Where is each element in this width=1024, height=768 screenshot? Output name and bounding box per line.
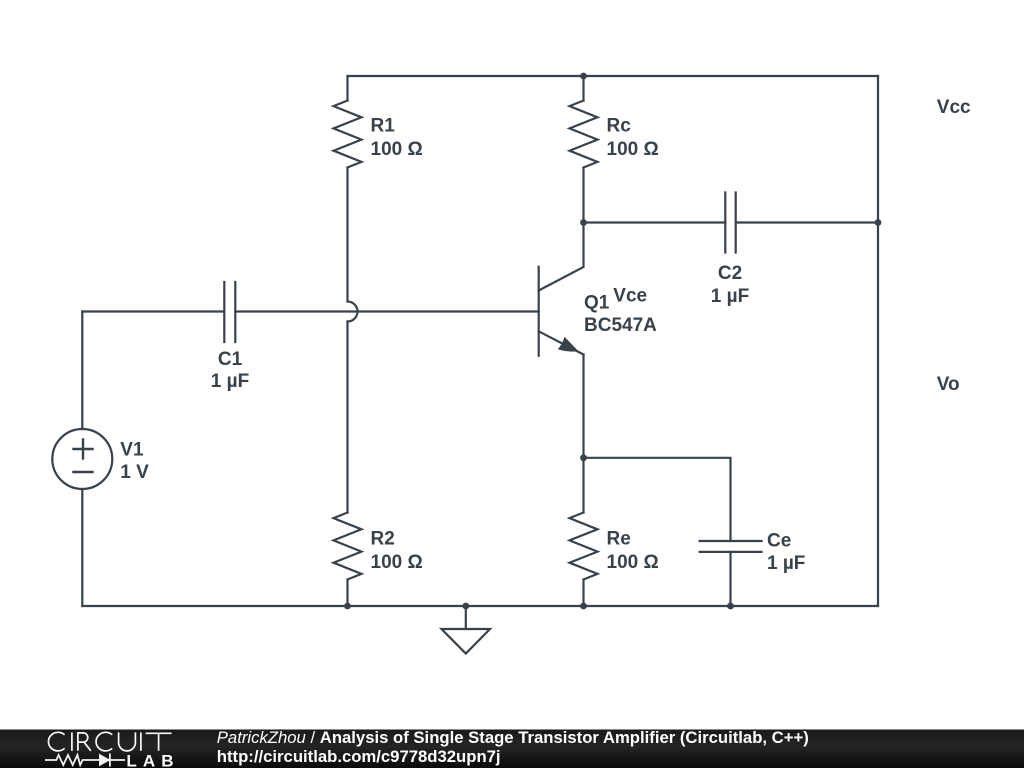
svg-text:Ce: Ce [767, 531, 791, 552]
svg-text:Vcc: Vcc [937, 97, 971, 118]
svg-text:100 Ω: 100 Ω [371, 139, 423, 160]
node dot Re bottom [580, 603, 587, 610]
svg-text:R2: R2 [371, 529, 395, 550]
wire bottom rail [82, 605, 878, 607]
wire R1 top lead [346, 76, 348, 101]
wire Re bottom lead [582, 580, 584, 607]
wire top rail Vcc [348, 75, 879, 77]
svg-text:C1: C1 [218, 349, 243, 370]
wire hop over base wire [348, 302, 358, 322]
node dot Rc top [580, 73, 587, 80]
resistor R1 [334, 101, 362, 168]
wire Rc top lead [582, 76, 584, 101]
wire emitter node to Ce [584, 458, 731, 541]
wire R2 bottom lead [346, 580, 348, 607]
node dot Ce bottom [727, 603, 734, 610]
svg-text:1 µF: 1 µF [767, 553, 805, 574]
wire right rail [877, 76, 879, 606]
wire collector node to C2 [584, 221, 726, 223]
wire emitter down [582, 355, 584, 513]
resistor Rc [570, 101, 598, 168]
wire V1 bottom lead [81, 489, 83, 606]
svg-text:BC547A: BC547A [584, 315, 657, 336]
svg-text:1 µF: 1 µF [711, 286, 749, 307]
wire C2 to right rail [736, 221, 878, 223]
svg-text:PatrickZhou / Analysis of Sing: PatrickZhou / Analysis of Single Stage T… [217, 728, 809, 747]
capacitor Ce [700, 541, 762, 552]
node dot emitter [580, 454, 587, 461]
logo CIRCUIT [48, 732, 171, 751]
voltage source V1 [52, 429, 112, 489]
svg-text:Rc: Rc [607, 116, 632, 137]
capacitor C1 [224, 282, 235, 342]
svg-text:R1: R1 [371, 116, 396, 137]
node dot R2 bottom [344, 603, 351, 610]
svg-text:Re: Re [607, 529, 631, 550]
resistor Re [570, 513, 598, 580]
svg-text:LAB: LAB [126, 751, 179, 768]
svg-text:Q1: Q1 [584, 293, 610, 314]
wire hop to R2 [346, 322, 348, 513]
wire Ce bottom lead [729, 552, 731, 606]
svg-text:V1: V1 [120, 440, 144, 461]
wire left input rail [81, 312, 83, 430]
resistor R2 [334, 513, 362, 580]
svg-text:100 Ω: 100 Ω [607, 552, 659, 573]
node dot collector [580, 219, 587, 226]
wire Rc to collector node [582, 168, 584, 223]
svg-text:1 µF: 1 µF [211, 371, 249, 392]
svg-text:C2: C2 [718, 263, 742, 284]
logo resistor-diode graphic [45, 754, 125, 767]
svg-text:1 V: 1 V [120, 462, 149, 483]
node dot C2 right [875, 219, 882, 226]
svg-text:http://circuitlab.com/c9778d32: http://circuitlab.com/c9778d32upn7j [217, 747, 501, 766]
transistor Q1 [539, 223, 584, 356]
svg-text:100 Ω: 100 Ω [371, 552, 423, 573]
svg-text:Vce: Vce [613, 286, 647, 307]
wire R1 to hop [346, 168, 348, 302]
ground [442, 606, 491, 654]
svg-text:Vo: Vo [937, 374, 960, 395]
capacitor C2 [725, 193, 735, 253]
node dot ground [462, 603, 469, 610]
wire base from C1 to Q1 base [235, 310, 538, 312]
svg-text:100 Ω: 100 Ω [607, 139, 659, 160]
wire base from input to C1 [82, 310, 224, 312]
